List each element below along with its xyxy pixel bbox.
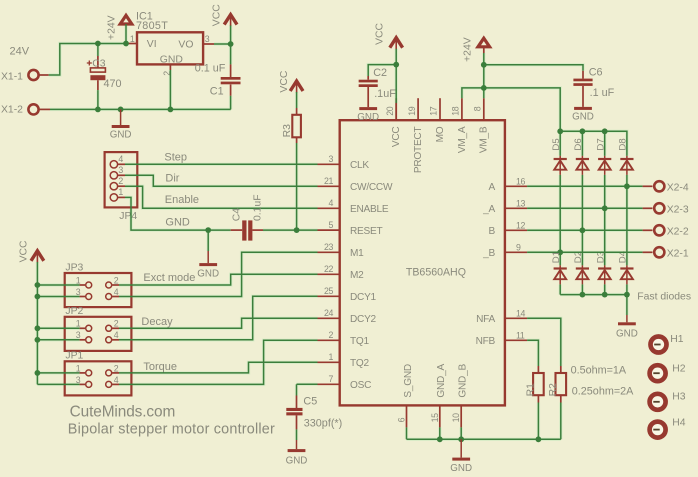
resistor R1 — [533, 373, 544, 395]
svg-text:D6: D6 — [573, 138, 584, 150]
svg-text:1: 1 — [329, 352, 334, 362]
wire C1 bottom stub — [230, 85, 232, 96]
svg-text:Decay: Decay — [141, 316, 173, 328]
wire C4 right stub — [252, 229, 263, 231]
pin header JP4 — [105, 152, 138, 207]
wire JP3 left stub — [80, 284, 86, 286]
JP4 pin 2 — [110, 183, 117, 190]
wire R3 to RESET net — [296, 143, 298, 230]
svg-text:GND: GND — [165, 216, 190, 228]
wire C2 to gnd — [367, 87, 369, 107]
node rail JP3 r2 — [35, 294, 41, 300]
IC U1 TB6560AHQ body — [340, 120, 505, 405]
svg-text:C1: C1 — [210, 85, 224, 97]
svg-text:3: 3 — [76, 330, 81, 340]
node rail JP2 r1 — [35, 325, 41, 331]
wire VCC to R3 — [296, 92, 298, 108]
svg-text:2: 2 — [114, 363, 119, 373]
svg-text:1: 1 — [76, 275, 81, 285]
svg-text:TQ1: TQ1 — [350, 336, 370, 347]
connector pad X1-2 — [28, 104, 38, 114]
svg-text:R2: R2 — [548, 383, 559, 397]
svg-text:Step: Step — [164, 151, 187, 163]
wire R1 bottom stub — [537, 395, 539, 402]
svg-text:X2-3: X2-3 — [667, 205, 689, 216]
svg-text:+24V: +24V — [463, 37, 474, 62]
wire X2-3 stub — [643, 207, 653, 209]
svg-text:X2-1: X2-1 — [667, 249, 689, 260]
wire col D5 middle — [559, 175, 561, 266]
wire col D1 lower — [559, 284, 561, 294]
connector pad X1-1 — [28, 70, 38, 80]
svg-text:PROTECT: PROTECT — [413, 127, 424, 174]
svg-text:X2-2: X2-2 — [667, 227, 689, 238]
svg-text:H4: H4 — [672, 418, 686, 429]
wire Enable net — [125, 186, 318, 208]
svg-text:5: 5 — [329, 220, 334, 230]
node R1 bus junction — [536, 436, 542, 442]
svg-text:VCC: VCC — [279, 70, 290, 92]
node col junction D6 — [580, 227, 586, 233]
wire JP1 right stub — [112, 372, 119, 374]
svg-text:H1: H1 — [670, 334, 684, 345]
svg-text:S_GND: S_GND — [403, 364, 414, 398]
wire Dir net — [125, 175, 318, 186]
node rail D6 — [580, 128, 586, 134]
wire JP1 right stub — [112, 383, 119, 385]
wire C5 top stub — [296, 396, 298, 409]
ground under C5 — [296, 440, 298, 449]
wire NFB to R1 — [527, 340, 538, 366]
node col junction D7 — [602, 205, 608, 211]
svg-text:CLK: CLK — [350, 160, 369, 171]
wire CLK pin stub — [318, 163, 340, 165]
wire M2 net — [119, 274, 318, 285]
svg-text:3: 3 — [118, 165, 123, 175]
JP1 pin 4 — [106, 381, 112, 387]
wire +24V stem — [483, 53, 485, 65]
wire M2 pin stub — [318, 273, 340, 275]
svg-text:0.1uF: 0.1uF — [252, 194, 263, 221]
wire S_GND drop — [406, 427, 408, 439]
svg-text:JP2: JP2 — [65, 306, 83, 317]
svg-text:1: 1 — [118, 187, 123, 197]
wire JP2 row feed — [37, 339, 79, 341]
wire pin 13 stub — [505, 207, 527, 209]
wire JP2 left stub — [80, 339, 86, 341]
svg-text:1: 1 — [76, 363, 81, 373]
wire JP2 right stub — [112, 327, 119, 329]
svg-text:0.1 uF: 0.1 uF — [195, 62, 226, 74]
svg-text:TQ2: TQ2 — [350, 358, 370, 369]
svg-text:Dir: Dir — [165, 173, 179, 185]
wire col D3 lower — [604, 284, 606, 294]
wire JP4 pin4 stub — [118, 163, 125, 165]
pin header JP3 — [65, 273, 132, 307]
node gnd tap — [205, 227, 211, 233]
svg-text:GND: GND — [572, 111, 594, 122]
wire R1 to bus — [537, 403, 539, 440]
svg-text:.1uF: .1uF — [374, 88, 396, 100]
svg-text:R3: R3 — [282, 124, 293, 138]
diode D7 — [604, 156, 606, 175]
wire bottom pin stub GND_B — [460, 405, 462, 427]
wire JP2 left stub — [80, 327, 86, 329]
wire JP4 pin3 stub — [118, 174, 125, 176]
JP3 pin 3 — [86, 294, 92, 300]
svg-text:B: B — [489, 226, 496, 237]
svg-text:GND: GND — [110, 130, 132, 141]
supply VCC symbol at R3 — [290, 81, 303, 91]
node RESET junction — [294, 227, 300, 233]
wire TQ2 net — [119, 362, 318, 373]
wire +24V to C6 — [484, 65, 583, 71]
wire TQ2 pin stub — [318, 361, 340, 363]
wire GND_B drop — [460, 427, 462, 439]
diode D8 — [626, 156, 628, 175]
svg-text:1: 1 — [130, 34, 135, 44]
connector pad X2-3 — [654, 203, 664, 213]
svg-text:M2: M2 — [350, 270, 364, 281]
svg-text:D5: D5 — [551, 138, 562, 150]
svg-text:GND: GND — [197, 269, 219, 280]
wire VCC net — [214, 43, 231, 45]
svg-text:.1 uF: .1 uF — [590, 87, 615, 99]
wire pin20 stub — [395, 103, 397, 120]
wire X2-1 stub — [643, 251, 653, 253]
wire bottom pin stub GND_A — [439, 405, 441, 427]
svg-text:CW/CCW: CW/CCW — [350, 182, 393, 193]
wire col D7 middle — [604, 175, 606, 266]
wire R2 to bus — [560, 403, 562, 440]
wire X2-4 stub — [643, 185, 653, 187]
wire R2 top stub — [560, 366, 562, 373]
svg-text:C2: C2 — [373, 67, 387, 79]
svg-text:2: 2 — [329, 330, 334, 340]
ground under C6 — [582, 106, 584, 108]
wire col D6 upper — [581, 131, 583, 156]
svg-text:22: 22 — [324, 264, 333, 274]
svg-text:VI: VI — [147, 39, 157, 50]
JP2 pin 3 — [86, 337, 92, 343]
pin header JP2 — [65, 317, 132, 351]
wire col D2 lower — [581, 284, 583, 294]
wire to VM_B — [483, 88, 485, 98]
svg-text:A: A — [489, 182, 496, 193]
JP3 pin 1 — [86, 282, 92, 288]
JP1 pin 2 — [106, 370, 112, 376]
svg-text:VCC: VCC — [374, 22, 385, 44]
svg-text:VCC: VCC — [391, 127, 402, 148]
wire VCC to pin20 — [395, 65, 397, 103]
svg-text:MO: MO — [435, 126, 446, 142]
wire pin 12 stub — [505, 229, 527, 231]
wire pin 9 stub — [505, 251, 527, 253]
svg-text:C5: C5 — [303, 395, 317, 407]
node bus GND_A — [437, 436, 443, 442]
ground under diodes — [626, 315, 628, 322]
svg-text:DCY1: DCY1 — [350, 292, 377, 303]
node +24V junction lower — [481, 85, 487, 91]
node bottom rail D3 — [602, 292, 608, 298]
pin header JP1 — [65, 361, 132, 395]
svg-text:VO: VO — [178, 40, 193, 51]
svg-text:H3: H3 — [672, 391, 686, 402]
mounting hole H2 — [650, 365, 666, 381]
svg-text:_A: _A — [482, 204, 495, 215]
JP3 pin 4 — [106, 294, 112, 300]
wire VCC arrow stem — [230, 26, 232, 45]
connector pad X2-1 — [654, 247, 664, 257]
svg-text:GND: GND — [616, 328, 638, 339]
wire JP2 row feed — [37, 327, 79, 329]
wire VCC rail — [36, 262, 38, 384]
svg-text:3: 3 — [329, 154, 334, 164]
svg-text:19: 19 — [407, 106, 417, 115]
svg-text:23: 23 — [324, 242, 333, 252]
svg-text:Torque: Torque — [143, 361, 177, 373]
svg-text:1: 1 — [76, 319, 81, 329]
wire X1-2 pin stub — [39, 108, 51, 110]
wire col D4 lower — [626, 284, 628, 294]
svg-text:NFA: NFA — [476, 314, 495, 325]
diode D1 — [559, 265, 561, 284]
node col junction D5 — [557, 249, 563, 255]
svg-text:C3: C3 — [92, 59, 106, 70]
capacitor C6 — [573, 79, 592, 82]
svg-text:VCC: VCC — [19, 240, 30, 262]
svg-text:Enable: Enable — [165, 194, 199, 206]
wire +24V to diode rail — [484, 88, 560, 131]
ground under bus — [120, 109, 122, 125]
wire X1-1 pin stub — [39, 74, 49, 76]
svg-text:Bipolar stepper motor controll: Bipolar stepper motor controller — [68, 422, 275, 438]
wire ENABLE pin stub — [318, 207, 340, 209]
node rail D7 — [602, 128, 608, 134]
wire diode top rail — [560, 131, 627, 156]
mounting hole H3 — [650, 394, 666, 410]
wire col D7 upper — [604, 131, 606, 156]
svg-text:RESET: RESET — [350, 226, 382, 237]
wire JP3 row feed — [37, 296, 79, 298]
JP2 pin 1 — [86, 325, 92, 331]
wire JP1 row feed — [37, 383, 79, 385]
wire JP3 right stub — [112, 284, 119, 286]
wire JP3 right stub — [112, 296, 119, 298]
svg-text:2: 2 — [114, 319, 119, 329]
svg-text:470: 470 — [104, 78, 122, 90]
svg-text:11: 11 — [516, 331, 525, 341]
resistor R2 — [556, 373, 567, 395]
svg-text:M1: M1 — [350, 248, 364, 259]
wire gnd net to C4 — [125, 197, 231, 230]
ground under C2 — [367, 106, 369, 108]
svg-text:4: 4 — [114, 375, 119, 385]
capacitor C5 — [286, 408, 302, 411]
wire C1 bottom — [230, 96, 232, 110]
wire X2-2 stub — [643, 229, 653, 231]
wire col D8 middle — [626, 175, 628, 266]
supply VCC symbol at rail — [31, 251, 44, 261]
wire 7805 VI pin stub — [127, 43, 137, 45]
wire top pin stub VM_A — [461, 98, 463, 120]
wire JP2 right stub — [112, 339, 119, 341]
wire R1 top stub — [537, 366, 539, 373]
svg-text:X2-4: X2-4 — [667, 183, 689, 194]
wire to VM_A — [462, 88, 484, 98]
wire _A output net — [527, 207, 643, 209]
svg-text:16: 16 — [516, 177, 525, 187]
wire 7805 gnd stub — [169, 64, 171, 70]
wire pin 11 stub — [505, 339, 527, 341]
svg-text:VM_A: VM_A — [457, 126, 468, 153]
wire CW/CCW pin stub — [318, 185, 340, 187]
svg-text:+24V: +24V — [107, 15, 118, 40]
voltage regulator IC1 7805T — [137, 32, 203, 64]
wire C5 to gnd — [296, 429, 298, 440]
svg-text:4: 4 — [329, 198, 334, 208]
capacitor C2 — [359, 80, 378, 83]
svg-text:6: 6 — [397, 417, 407, 422]
wire R3 bottom stub — [296, 137, 298, 143]
svg-text:CuteMinds.com: CuteMinds.com — [70, 403, 176, 420]
svg-text:GND: GND — [160, 54, 183, 65]
wire RESET net — [263, 229, 318, 231]
svg-text:7805T: 7805T — [136, 20, 168, 32]
wire M1 net — [119, 252, 318, 296]
node rail JP2 r2 — [35, 337, 41, 343]
wire A output net — [527, 185, 643, 187]
svg-text:7: 7 — [329, 374, 334, 384]
wire top pin stub VM_B — [483, 98, 485, 120]
svg-text:Fast diodes: Fast diodes — [637, 291, 691, 302]
wire 7805 gnd — [169, 70, 171, 109]
wire TQ1 net — [119, 340, 318, 384]
svg-text:GND_B: GND_B — [458, 364, 469, 398]
svg-text:NFB: NFB — [476, 336, 496, 347]
wire GND_A drop — [439, 427, 441, 439]
wire diode bottom rail — [560, 294, 627, 296]
JP3 pin 2 — [106, 282, 112, 288]
svg-text:20: 20 — [385, 106, 395, 115]
svg-text:C6: C6 — [589, 66, 603, 78]
svg-text:10: 10 — [451, 413, 461, 422]
node +24V junction upper — [481, 62, 487, 68]
node +24V junction at C3 — [95, 41, 101, 47]
svg-text:VCC: VCC — [211, 4, 222, 26]
node bottom rail D2 — [580, 292, 586, 298]
diode D5 — [559, 156, 561, 175]
JP1 pin 1 — [86, 370, 92, 376]
svg-text:DCY2: DCY2 — [350, 314, 377, 325]
svg-text:R1: R1 — [526, 383, 537, 397]
wire col D6 middle — [581, 175, 583, 266]
svg-text:Exct mode: Exct mode — [143, 272, 195, 284]
wire pin 14 stub — [505, 317, 527, 319]
wire OSC net — [297, 383, 318, 385]
wire C3 bottom — [97, 90, 99, 109]
wire R3 top stub — [296, 108, 298, 115]
svg-text:2: 2 — [118, 176, 123, 186]
svg-text:TB6560AHQ: TB6560AHQ — [406, 266, 466, 278]
svg-text:JP3: JP3 — [65, 262, 83, 273]
wire B output net — [527, 229, 643, 231]
JP1 pin 3 — [86, 381, 92, 387]
JP2 pin 2 — [106, 325, 112, 331]
ground under JP4 net — [207, 251, 209, 263]
wire JP1 left stub — [80, 372, 86, 374]
svg-text:4: 4 — [118, 154, 123, 164]
svg-text:_B: _B — [482, 248, 495, 259]
diode D6 — [581, 156, 583, 175]
wire to C1 — [230, 44, 232, 64]
wire gnd drop — [207, 230, 209, 251]
svg-text:JP1: JP1 — [65, 351, 83, 362]
svg-text:2: 2 — [114, 275, 119, 285]
mounting hole H1 — [651, 337, 667, 353]
wire JP1 left stub — [80, 383, 86, 385]
wire DCY1 net — [119, 296, 318, 340]
wire pin 16 stub — [505, 185, 527, 187]
svg-text:0.5ohm=1A: 0.5ohm=1A — [571, 364, 627, 376]
wire rail to gnd — [626, 295, 628, 315]
wire C6 top stub — [582, 71, 584, 79]
svg-text:14: 14 — [516, 309, 525, 319]
diode D3 — [604, 265, 606, 284]
wire RESET pin stub — [318, 229, 340, 231]
svg-text:C4: C4 — [232, 208, 243, 222]
resistor R3 — [292, 115, 301, 138]
supply VCC symbol at 7805 — [224, 15, 237, 25]
node VCC-C2 junction — [393, 62, 399, 68]
wire bottom gnd bus — [407, 438, 561, 440]
wire JP3 left stub — [80, 296, 86, 298]
wire _B output net — [527, 251, 643, 253]
wire +24V down — [483, 65, 485, 88]
wire ground bus — [50, 108, 231, 110]
svg-text:3: 3 — [76, 375, 81, 385]
node gnd junction 7805 — [168, 107, 174, 113]
svg-text:D8: D8 — [618, 138, 629, 150]
wire bottom pin stub S_GND — [406, 405, 408, 427]
node +24V junction at arrow — [123, 41, 129, 47]
svg-text:ENABLE: ENABLE — [350, 204, 389, 215]
wire DCY2 net — [119, 318, 318, 328]
supply +24V symbol — [120, 15, 132, 24]
wire JP1 row feed — [37, 372, 79, 374]
wire OSC pin stub — [318, 383, 340, 385]
wire C3 bottom stub — [97, 80, 99, 90]
svg-text:4: 4 — [114, 287, 119, 297]
wire M1 pin stub — [318, 251, 340, 253]
svg-text:3: 3 — [76, 287, 81, 297]
wire top pin stub VCC — [395, 98, 397, 120]
svg-text:0.25ohm=2A: 0.25ohm=2A — [572, 386, 634, 398]
mounting hole H4 — [650, 422, 666, 438]
svg-text:X1-1: X1-1 — [1, 71, 23, 82]
node gnd junction C3 — [95, 107, 101, 113]
wire to C2 — [368, 65, 396, 76]
wire C2 top stub — [367, 76, 369, 80]
wire DCY2 pin stub — [318, 317, 340, 319]
svg-text:21: 21 — [324, 176, 333, 186]
node bus GND_B — [458, 436, 464, 442]
node col junction D8 — [624, 183, 630, 189]
capacitor C3 — [90, 68, 105, 72]
svg-text:17: 17 — [429, 106, 439, 115]
wire C6 to gnd — [582, 86, 584, 107]
wire TQ1 pin stub — [318, 339, 340, 341]
